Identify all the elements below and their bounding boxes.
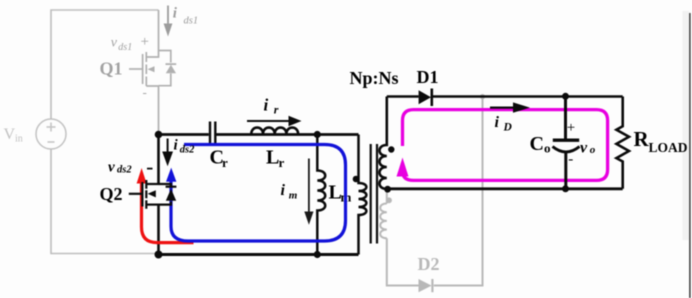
wire primary top rail bbox=[159, 133, 359, 136]
svg-text:ds1: ds1 bbox=[184, 16, 199, 27]
red arrowhead bbox=[137, 168, 147, 184]
svg-text:Q2: Q2 bbox=[100, 184, 123, 204]
transformer primary winding bbox=[359, 135, 367, 255]
body arrow of Q2 bbox=[148, 190, 156, 197]
svg-text:v: v bbox=[580, 139, 588, 156]
wire Vin top rail (gray) bbox=[51, 10, 159, 119]
wire Vin bottom rail (gray) bbox=[51, 149, 156, 254]
svg-text:r: r bbox=[274, 103, 279, 117]
svg-text:-: - bbox=[143, 85, 147, 100]
polarity dot secondary lower winding (gray) bbox=[386, 197, 392, 203]
magenta arrowhead bbox=[397, 158, 409, 177]
svg-text:in: in bbox=[15, 134, 23, 145]
node D2 cathode to output rail (gray dot) bbox=[480, 94, 485, 99]
svg-text:Q1: Q1 bbox=[100, 59, 123, 79]
node switch net top bbox=[155, 131, 163, 139]
svg-text:i: i bbox=[281, 182, 286, 199]
svg-text:C: C bbox=[530, 133, 544, 155]
magenta output current loop bbox=[403, 110, 608, 181]
transformer core bbox=[371, 144, 377, 244]
body diode of Q1 bbox=[148, 63, 177, 73]
svg-text:V: V bbox=[4, 126, 16, 143]
svg-text:R: R bbox=[634, 127, 650, 151]
svg-text:+: + bbox=[567, 120, 575, 136]
svg-text:ds1: ds1 bbox=[118, 42, 132, 53]
svg-text:i: i bbox=[174, 138, 179, 154]
diode D2 branch (inactive) bbox=[380, 97, 482, 292]
current arrow ir bbox=[247, 96, 302, 127]
svg-text:v: v bbox=[108, 160, 115, 176]
svg-text:+: + bbox=[141, 34, 149, 50]
wire secondary bottom rail (center tap) bbox=[387, 187, 623, 190]
node center tap bbox=[384, 186, 391, 193]
node Co bottom bbox=[562, 185, 569, 192]
svg-text:o: o bbox=[590, 144, 596, 156]
transformer secondary winding (upper) bbox=[379, 97, 386, 190]
svg-text:L: L bbox=[266, 147, 279, 169]
transistor Q2 bbox=[129, 180, 171, 209]
svg-text:-: - bbox=[568, 152, 573, 168]
svg-text:i: i bbox=[173, 6, 178, 22]
svg-text:r: r bbox=[222, 155, 228, 170]
inductor Lr bbox=[251, 128, 298, 134]
svg-text:v: v bbox=[111, 36, 118, 51]
diode D2 symbol bbox=[419, 279, 432, 292]
svg-text:i: i bbox=[264, 96, 269, 115]
current arrow ids2 bbox=[162, 138, 195, 167]
blue resonant current loop bbox=[171, 145, 346, 242]
svg-text:r: r bbox=[279, 155, 285, 170]
diode D1 bbox=[419, 90, 431, 104]
label vds2 bbox=[108, 160, 153, 176]
svg-text:D1: D1 bbox=[417, 67, 439, 87]
polarity dot primary bbox=[353, 176, 360, 183]
inductor Lm branch bbox=[317, 135, 325, 255]
svg-text:o: o bbox=[544, 141, 551, 156]
wire primary bottom rail bbox=[159, 253, 359, 256]
polarity dot secondary bbox=[388, 146, 394, 152]
svg-text:ds2: ds2 bbox=[117, 165, 132, 176]
label + vo - bbox=[567, 120, 596, 168]
wire secondary top rail bbox=[387, 95, 623, 98]
label Vin bbox=[4, 126, 23, 145]
svg-text:ds2: ds2 bbox=[180, 145, 195, 156]
svg-text:LOAD: LOAD bbox=[649, 140, 688, 155]
body diode of Q2 bbox=[166, 186, 177, 188]
current arrow iD bbox=[490, 102, 530, 133]
svg-text:D: D bbox=[503, 122, 513, 134]
voltage source Vin bbox=[36, 119, 66, 149]
svg-text:m: m bbox=[289, 190, 298, 202]
blue arrowhead bbox=[166, 168, 176, 182]
svg-text:Np:Ns: Np:Ns bbox=[350, 68, 399, 88]
red commutation loop around Q2 bbox=[142, 180, 194, 243]
current arrow ids1 bbox=[164, 6, 198, 37]
svg-text:i: i bbox=[495, 114, 500, 131]
node Co top bbox=[562, 93, 569, 100]
label vds1 bbox=[111, 34, 149, 100]
transistor Q1 (inactive) bbox=[129, 10, 171, 134]
wire primary left branch bbox=[157, 135, 160, 255]
node Lm bottom bbox=[314, 251, 321, 258]
svg-text:D2: D2 bbox=[418, 254, 440, 274]
node ground net bottom bbox=[155, 251, 163, 259]
capacitor Cr bbox=[210, 122, 215, 145]
current arrow im bbox=[281, 159, 314, 225]
resistor RLOAD branch bbox=[616, 97, 629, 189]
node Lm top bbox=[314, 131, 321, 138]
capacitor Co branch bbox=[553, 97, 580, 189]
